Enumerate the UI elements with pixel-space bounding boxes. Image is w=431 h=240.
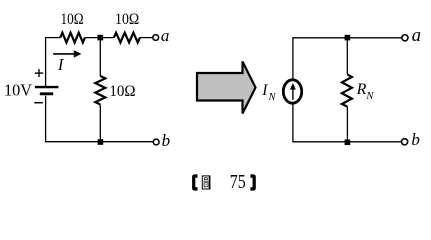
terminal a (right circuit, open circle) (402, 35, 408, 41)
current arrow I (53, 50, 81, 57)
node n3 junction dot (right circuit top) (345, 35, 351, 41)
svg-text:RN: RN (356, 81, 375, 102)
svg-text:IN: IN (261, 82, 276, 103)
caption left lenticular bracket 【 (192, 174, 197, 190)
wire: left rail upper segment (45, 37, 47, 86)
wire: right circuit top rail (293, 37, 402, 39)
node n1 junction dot (top middle) (98, 35, 104, 41)
wire: top rail from R2 to terminal a (140, 37, 153, 39)
resistor R1 10Ω (top left, horizontal zigzag) (60, 33, 85, 43)
node n2 junction dot (bottom middle) (98, 139, 104, 145)
equivalence block arrow (197, 62, 256, 114)
current source IN (circle with upward arrow) (283, 80, 301, 103)
svg-text:a: a (161, 26, 170, 45)
svg-text:b: b (162, 131, 171, 150)
caption character 圖 (drawn) (202, 176, 210, 189)
resistor R3 10Ω (middle branch, vertical zigzag) (95, 76, 105, 105)
svg-text:10V: 10V (4, 80, 33, 99)
svg-text:I: I (57, 55, 65, 74)
wire: right circuit left rail lower segment (292, 104, 294, 142)
wire: top rail between R1 and R2 through node n1 (85, 37, 114, 39)
wire: left rail lower segment (45, 96, 47, 143)
wire: middle branch upper segment (99, 38, 101, 76)
svg-text:a: a (412, 26, 421, 46)
resistor R2 10Ω (top right, horizontal zigzag) (114, 33, 140, 43)
wire: right circuit left rail upper segment (292, 37, 294, 80)
battery plus sign (35, 69, 43, 77)
node n4 junction dot (right circuit bottom) (345, 140, 351, 146)
voltage source V1 10V (battery) (35, 37, 59, 142)
wire: middle branch lower segment (99, 105, 101, 142)
svg-text:10Ω: 10Ω (61, 11, 84, 28)
wire: left circuit bottom rail (45, 141, 153, 143)
svg-text:75: 75 (230, 171, 246, 193)
wire: right circuit middle branch lower segment (346, 107, 348, 142)
wire: right circuit bottom rail (293, 141, 402, 143)
battery minus sign (34, 102, 43, 104)
svg-text:b: b (411, 130, 420, 149)
svg-text:10Ω: 10Ω (109, 83, 135, 100)
terminal a (left circuit, open circle) (153, 35, 159, 41)
wire: left circuit top rail segment from source corner to R1 (45, 37, 60, 39)
wire: right circuit middle branch upper segment (346, 38, 348, 75)
resistor RN (vertical zigzag) (342, 74, 352, 106)
svg-text:10Ω: 10Ω (115, 11, 139, 28)
battery short plate (-) (40, 92, 53, 95)
terminal b (left circuit, open circle) (153, 139, 159, 145)
caption right lenticular bracket 】 (250, 174, 255, 190)
terminal b (right circuit, open circle) (402, 139, 408, 145)
battery long plate (+) (35, 86, 59, 88)
